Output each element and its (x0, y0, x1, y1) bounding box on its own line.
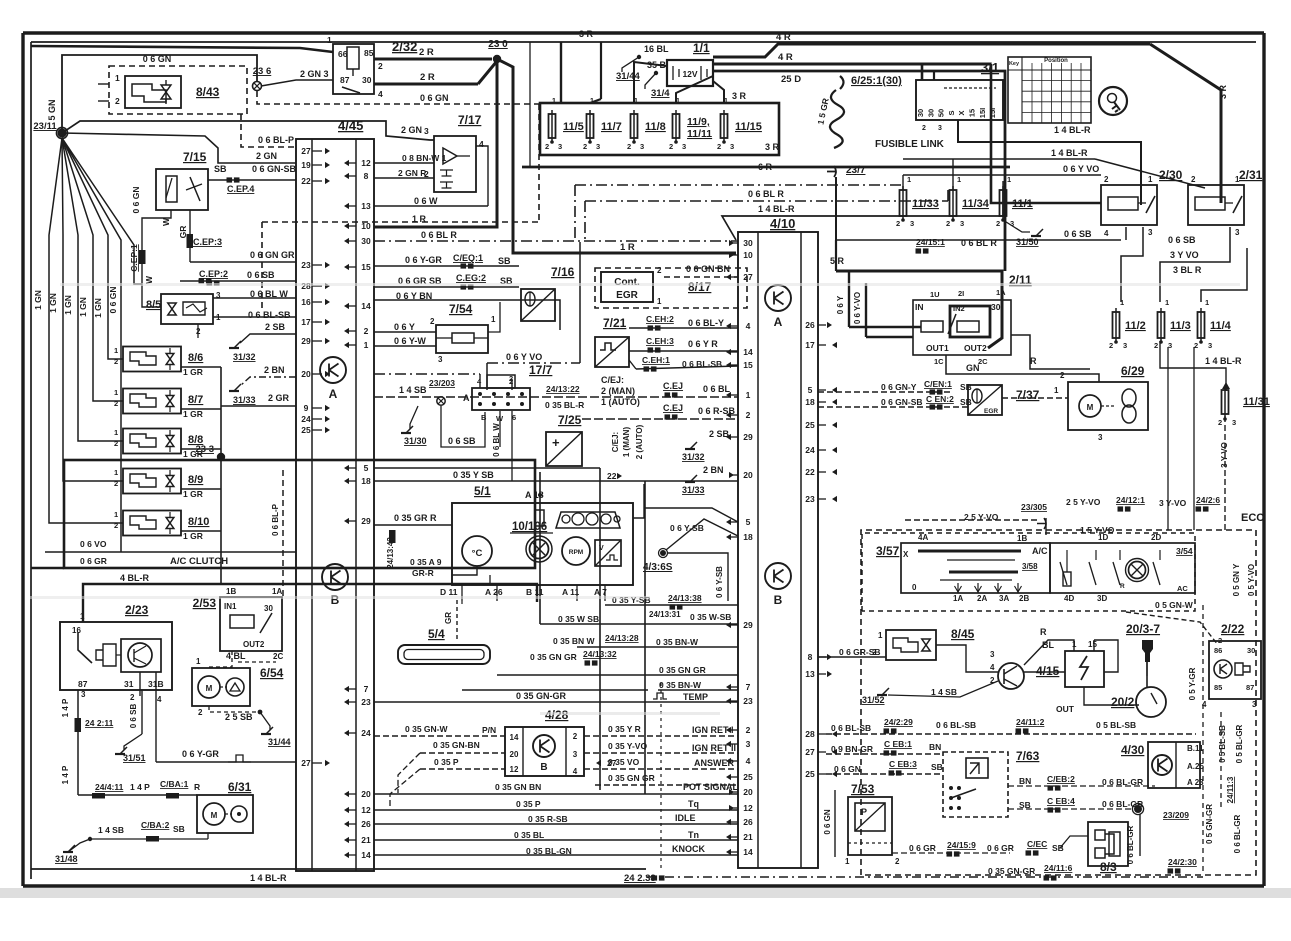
svg-text:C.EJ: C.EJ (663, 403, 683, 413)
svg-text:29: 29 (301, 336, 311, 346)
svg-text:0: 0 (912, 583, 917, 592)
svg-text:23/203: 23/203 (429, 378, 455, 388)
svg-text:0 6 Y R: 0 6 Y R (688, 339, 718, 349)
svg-text:0 5 BL-SB: 0 5 BL-SB (1096, 720, 1136, 730)
svg-text:0 35 R-SB: 0 35 R-SB (528, 814, 568, 824)
svg-text:3/58: 3/58 (1022, 562, 1038, 571)
svg-text:15: 15 (1088, 640, 1097, 649)
svg-text:°C: °C (472, 548, 483, 559)
svg-text:18: 18 (361, 476, 371, 486)
svg-text:3 R: 3 R (732, 91, 747, 101)
svg-text:2: 2 (746, 725, 751, 735)
svg-text:1: 1 (657, 297, 662, 306)
svg-text:3: 3 (1208, 341, 1212, 350)
svg-text:2: 2 (922, 125, 926, 132)
svg-text:24 2:11: 24 2:11 (85, 718, 114, 728)
svg-text:14: 14 (510, 733, 519, 742)
svg-text:1: 1 (196, 657, 201, 666)
svg-text:16 BL: 16 BL (644, 44, 669, 54)
svg-text:5 R: 5 R (830, 256, 845, 266)
svg-text:2: 2 (114, 357, 118, 366)
svg-text:2: 2 (114, 521, 118, 530)
svg-text:1: 1 (907, 175, 911, 184)
svg-text:31/51: 31/51 (123, 753, 146, 763)
svg-text:2 BN: 2 BN (264, 365, 285, 375)
svg-text:31: 31 (124, 679, 134, 689)
svg-text:24/13:28: 24/13:28 (605, 633, 639, 643)
svg-text:1 (MAN): 1 (MAN) (622, 427, 631, 458)
svg-text:2: 2 (1109, 341, 1113, 350)
svg-text:31/48: 31/48 (55, 854, 78, 864)
svg-text:27: 27 (301, 146, 311, 156)
svg-text:13: 13 (361, 201, 371, 211)
svg-text:17/7: 17/7 (529, 363, 553, 377)
svg-text:14: 14 (743, 347, 753, 357)
svg-text:3: 3 (1123, 341, 1127, 350)
svg-text:0 6 Y: 0 6 Y (394, 322, 415, 332)
svg-text:3: 3 (910, 219, 914, 228)
svg-text:0 6 Y: 0 6 Y (836, 295, 845, 314)
svg-text:1A: 1A (996, 288, 1006, 297)
svg-text:0 6 BL R: 0 6 BL R (748, 189, 784, 199)
svg-text:3/1: 3/1 (981, 60, 999, 75)
svg-text:2 R: 2 R (420, 72, 435, 83)
svg-text:C.EH:2: C.EH:2 (646, 314, 674, 324)
svg-text:2C: 2C (978, 357, 988, 366)
svg-text:4: 4 (479, 139, 484, 149)
svg-text:30: 30 (1247, 646, 1255, 655)
svg-text:14: 14 (361, 850, 371, 860)
svg-text:4A: 4A (918, 533, 928, 542)
svg-text:23/7: 23/7 (846, 165, 866, 176)
svg-text:1 5 Y-VO: 1 5 Y-VO (1080, 525, 1115, 535)
svg-text:3: 3 (730, 142, 734, 151)
svg-text:25: 25 (805, 420, 815, 430)
svg-text:1: 1 (114, 468, 118, 477)
svg-text:1 4 SB: 1 4 SB (98, 825, 124, 835)
svg-text:18: 18 (805, 397, 815, 407)
svg-text:7: 7 (364, 684, 369, 694)
svg-text:SB: SB (173, 824, 185, 834)
svg-text:24/12:1: 24/12:1 (1116, 495, 1145, 505)
svg-text:C.EP:1: C.EP:1 (129, 244, 139, 272)
svg-text:0 35 BL-R: 0 35 BL-R (545, 400, 584, 410)
svg-text:S: S (947, 110, 956, 115)
svg-text:31/50: 31/50 (1016, 237, 1039, 247)
svg-text:8/6: 8/6 (188, 352, 203, 364)
svg-text:0 6 GN: 0 6 GN (108, 287, 118, 314)
svg-text:4: 4 (1104, 229, 1109, 238)
svg-text:0 5 GN-W: 0 5 GN-W (1155, 600, 1194, 610)
svg-text:12V: 12V (682, 69, 697, 79)
svg-text:B: B (774, 593, 783, 607)
svg-text:6/31: 6/31 (228, 780, 252, 794)
svg-text:29: 29 (743, 432, 753, 442)
svg-text:1 R: 1 R (412, 214, 427, 224)
svg-text:0 6 Y-W: 0 6 Y-W (394, 336, 426, 346)
svg-text:3: 3 (1232, 418, 1236, 427)
svg-text:17: 17 (301, 317, 311, 327)
svg-text:0 35 BN-W: 0 35 BN-W (659, 680, 702, 690)
svg-text:8/7: 8/7 (188, 394, 203, 406)
svg-text:1C: 1C (934, 357, 944, 366)
svg-text:27: 27 (301, 758, 311, 768)
svg-text:23: 23 (743, 696, 753, 706)
svg-text:6/25:1(30): 6/25:1(30) (851, 75, 902, 87)
svg-text:24/13:22: 24/13:22 (546, 384, 580, 394)
svg-text:24/11:6: 24/11:6 (1044, 863, 1073, 873)
svg-text:1 4 BL-R: 1 4 BL-R (250, 873, 287, 883)
svg-text:15I: 15I (988, 108, 997, 118)
svg-text:1 4 BL-R: 1 4 BL-R (1205, 356, 1242, 366)
svg-text:8/17: 8/17 (688, 280, 712, 294)
svg-text:C/EQ:1: C/EQ:1 (453, 253, 483, 263)
svg-text:C.EP.4: C.EP.4 (227, 184, 254, 194)
svg-text:0 6 GN-SB: 0 6 GN-SB (252, 164, 297, 174)
svg-text:85: 85 (364, 48, 374, 58)
svg-text:3: 3 (938, 125, 942, 132)
svg-text:4/10: 4/10 (770, 216, 795, 231)
svg-text:2: 2 (1154, 341, 1158, 350)
svg-text:20: 20 (361, 789, 371, 799)
svg-text:0 5 BL-SB: 0 5 BL-SB (1218, 725, 1227, 763)
svg-text:11/7: 11/7 (601, 121, 622, 133)
svg-text:X: X (903, 550, 909, 559)
svg-text:30: 30 (264, 604, 273, 613)
svg-text:4: 4 (157, 695, 162, 704)
svg-text:31/32: 31/32 (233, 352, 256, 362)
svg-text:3: 3 (640, 142, 644, 151)
svg-text:2: 2 (669, 142, 673, 151)
svg-text:8/9: 8/9 (188, 474, 203, 486)
svg-text:13: 13 (805, 669, 815, 679)
svg-text:W: W (144, 275, 154, 284)
svg-text:C/BA:1: C/BA:1 (160, 779, 189, 789)
svg-text:16: 16 (72, 626, 81, 635)
svg-text:C EB:4: C EB:4 (1047, 796, 1075, 806)
svg-text:2 GN: 2 GN (401, 125, 422, 135)
svg-text:27: 27 (607, 758, 617, 768)
svg-text:TEMP: TEMP (683, 692, 708, 702)
svg-text:2 SB: 2 SB (709, 429, 730, 439)
svg-text:M: M (1087, 403, 1094, 412)
svg-text:2 (MAN): 2 (MAN) (601, 386, 635, 396)
svg-text:2 R: 2 R (419, 47, 434, 58)
svg-text:11/1: 11/1 (1012, 198, 1033, 210)
svg-text:4/45: 4/45 (338, 118, 363, 133)
svg-text:30: 30 (991, 302, 1001, 312)
svg-text:3 Y-VO: 3 Y-VO (1159, 498, 1187, 508)
svg-text:21: 21 (361, 835, 371, 845)
svg-text:2/31: 2/31 (1239, 168, 1263, 182)
svg-text:2D: 2D (1151, 533, 1161, 542)
svg-text:2/32: 2/32 (392, 39, 417, 54)
svg-text:1 4 BL-R: 1 4 BL-R (1051, 148, 1088, 158)
svg-text:2: 2 (657, 266, 662, 275)
svg-text:A 26: A 26 (485, 587, 503, 597)
svg-text:2: 2 (996, 219, 1000, 228)
svg-text:25: 25 (743, 772, 753, 782)
svg-text:1 (AUTO): 1 (AUTO) (601, 397, 640, 407)
svg-text:1 4 SB: 1 4 SB (931, 687, 957, 697)
svg-text:2: 2 (1218, 418, 1222, 427)
svg-text:OUT2: OUT2 (964, 343, 987, 353)
svg-text:4: 4 (746, 756, 751, 766)
svg-text:C.EH:3: C.EH:3 (646, 336, 674, 346)
svg-text:0 6 BL-SB: 0 6 BL-SB (248, 310, 291, 320)
svg-text:R: R (194, 782, 200, 792)
svg-text:87: 87 (1246, 683, 1254, 692)
svg-text:11/11: 11/11 (687, 128, 712, 140)
svg-text:3 R: 3 R (765, 142, 780, 152)
svg-text:1: 1 (115, 73, 120, 83)
svg-text:1/1: 1/1 (693, 41, 710, 55)
svg-text:0 6 SB: 0 6 SB (129, 704, 138, 729)
svg-text:0 35 W-SB: 0 35 W-SB (690, 612, 731, 622)
svg-text:0 6 Y-GR: 0 6 Y-GR (405, 255, 442, 265)
svg-text:1 4 P: 1 4 P (130, 782, 150, 792)
svg-text:30: 30 (361, 236, 371, 246)
svg-text:1 GN: 1 GN (93, 298, 103, 318)
svg-text:87: 87 (78, 679, 88, 689)
svg-text:3: 3 (573, 750, 578, 759)
svg-text:11/2: 11/2 (1125, 320, 1146, 332)
svg-text:BN: BN (929, 742, 941, 752)
svg-text:0 6 BL-Y: 0 6 BL-Y (688, 318, 724, 328)
svg-text:ANSWER: ANSWER (694, 758, 734, 768)
svg-text:0 6 W: 0 6 W (414, 196, 438, 206)
svg-text:RPM: RPM (569, 549, 583, 556)
svg-text:5: 5 (364, 463, 369, 473)
svg-text:0 6 VO: 0 6 VO (80, 539, 107, 549)
svg-text:0 35 Y-VO: 0 35 Y-VO (608, 741, 647, 751)
svg-text:0 35 BN W: 0 35 BN W (553, 636, 596, 646)
svg-text:86: 86 (1214, 646, 1222, 655)
svg-text:20: 20 (301, 369, 311, 379)
svg-text:1: 1 (364, 340, 369, 350)
svg-text:1 GR: 1 GR (183, 409, 203, 419)
svg-text:7: 7 (746, 682, 751, 692)
svg-text:5/4: 5/4 (428, 627, 445, 641)
svg-text:0 6 Y VO: 0 6 Y VO (506, 352, 542, 362)
svg-text:2 GN 3: 2 GN 3 (300, 69, 329, 79)
svg-text:IDLE: IDLE (675, 813, 696, 823)
svg-text:24/2:6: 24/2:6 (1196, 495, 1220, 505)
svg-text:0 6 BL-GR: 0 6 BL-GR (1233, 814, 1242, 853)
svg-text:IN1: IN1 (224, 602, 237, 611)
svg-text:A: A (774, 315, 783, 329)
svg-text:4D: 4D (1064, 594, 1074, 603)
svg-text:0 6 GN-Y: 0 6 GN-Y (881, 382, 917, 392)
svg-text:1: 1 (552, 96, 556, 105)
svg-text:B.11: B.11 (1187, 744, 1204, 753)
svg-text:Cont.: Cont. (614, 277, 640, 288)
svg-text:31/4: 31/4 (651, 88, 670, 99)
svg-text:2 GN: 2 GN (256, 151, 277, 161)
svg-text:2: 2 (717, 142, 721, 151)
svg-text:24: 24 (301, 414, 311, 424)
svg-text:5 GN: 5 GN (47, 99, 57, 120)
svg-text:8/5: 8/5 (146, 299, 161, 311)
svg-text:1: 1 (1235, 175, 1240, 184)
svg-text:8: 8 (364, 171, 369, 181)
svg-text:0 35 Y R: 0 35 Y R (608, 724, 641, 734)
svg-text:+: + (552, 435, 560, 450)
svg-text:50: 50 (937, 109, 946, 117)
svg-text:11/5: 11/5 (563, 121, 584, 133)
svg-text:7/25: 7/25 (558, 413, 582, 427)
svg-text:3D: 3D (1097, 594, 1107, 603)
svg-text:0 6 SB: 0 6 SB (448, 436, 476, 446)
svg-text:28: 28 (805, 729, 815, 739)
svg-text:2: 2 (114, 399, 118, 408)
svg-text:0 6 GN: 0 6 GN (131, 187, 141, 214)
svg-text:3 R: 3 R (579, 29, 594, 39)
svg-text:0 6 GN BN: 0 6 GN BN (686, 264, 730, 274)
svg-text:GR-R: GR-R (412, 568, 434, 578)
svg-text:2 GN R: 2 GN R (398, 168, 426, 178)
svg-text:3: 3 (558, 142, 562, 151)
svg-text:4: 4 (573, 767, 578, 776)
svg-text:26: 26 (361, 819, 371, 829)
svg-text:3/54: 3/54 (1176, 546, 1193, 556)
svg-text:31/52: 31/52 (862, 695, 885, 705)
svg-text:15: 15 (361, 262, 371, 272)
svg-text:24/2:30: 24/2:30 (1168, 857, 1197, 867)
svg-text:C EN:2: C EN:2 (926, 394, 954, 404)
svg-text:0 35 BL: 0 35 BL (514, 830, 544, 840)
svg-text:0 35 BN-W: 0 35 BN-W (656, 637, 699, 647)
svg-text:EGR: EGR (616, 290, 638, 301)
svg-text:1 4 P: 1 4 P (61, 698, 70, 717)
svg-text:31/32: 31/32 (682, 452, 705, 462)
svg-text:Tn: Tn (688, 830, 699, 840)
svg-text:24/11:3: 24/11:3 (1226, 776, 1235, 803)
svg-text:EGR: EGR (984, 408, 998, 415)
svg-text:11/34: 11/34 (962, 198, 990, 210)
svg-text:0 6 GN GR: 0 6 GN GR (250, 250, 295, 260)
svg-text:0 5 Y-GR: 0 5 Y-GR (1188, 667, 1197, 700)
svg-text:GN: GN (966, 363, 980, 373)
svg-text:15: 15 (968, 109, 977, 117)
svg-text:22: 22 (301, 176, 311, 186)
svg-text:2/30: 2/30 (1159, 168, 1183, 182)
svg-text:0 6 GN: 0 6 GN (823, 809, 832, 835)
svg-text:11/9,: 11/9, (687, 116, 710, 128)
svg-text:4/30: 4/30 (1121, 743, 1145, 757)
svg-text:4/3:6S: 4/3:6S (643, 562, 673, 573)
svg-text:SB: SB (960, 397, 972, 407)
svg-text:24: 24 (361, 728, 371, 738)
svg-text:POT SIGNAL: POT SIGNAL (683, 782, 739, 792)
svg-text:6/29: 6/29 (1121, 364, 1145, 378)
svg-text:24 2.38: 24 2.38 (624, 873, 656, 884)
svg-text:2: 2 (1104, 175, 1109, 184)
svg-text:23 0: 23 0 (488, 39, 508, 50)
svg-text:2: 2 (430, 317, 435, 326)
svg-text:8/10: 8/10 (188, 516, 209, 528)
svg-text:1: 1 (327, 35, 332, 45)
svg-text:A.25: A.25 (1187, 762, 1204, 771)
svg-text:Key: Key (1009, 61, 1020, 67)
svg-text:24: 24 (805, 445, 815, 455)
svg-text:2: 2 (198, 708, 203, 717)
svg-text:2: 2 (509, 374, 513, 383)
svg-text:0 35 GN-GR: 0 35 GN-GR (988, 866, 1035, 876)
svg-text:26: 26 (805, 320, 815, 330)
svg-text:C/EB:2: C/EB:2 (1047, 774, 1075, 784)
svg-text:1 GN: 1 GN (33, 290, 43, 310)
svg-text:C.EJ: C.EJ (663, 381, 683, 391)
svg-text:1 GN: 1 GN (48, 293, 58, 313)
svg-text:10/106: 10/106 (512, 521, 547, 533)
svg-text:C EB:3: C EB:3 (889, 759, 917, 769)
svg-text:1: 1 (845, 857, 850, 866)
svg-text:7/15: 7/15 (183, 150, 207, 164)
svg-text:OUT2: OUT2 (243, 640, 265, 649)
svg-text:0 35 GR R: 0 35 GR R (394, 513, 437, 523)
svg-text:23 3: 23 3 (196, 444, 215, 455)
svg-text:3: 3 (596, 142, 600, 151)
svg-text:2 SB: 2 SB (265, 322, 286, 332)
svg-text:23: 23 (361, 697, 371, 707)
svg-text:11/33: 11/33 (912, 198, 939, 210)
svg-text:0 6 BL: 0 6 BL (703, 384, 731, 394)
svg-text:1 GR: 1 GR (183, 367, 203, 377)
svg-text:9: 9 (304, 403, 309, 413)
svg-text:A: A (463, 393, 470, 403)
svg-text:C EB:1: C EB:1 (884, 739, 912, 749)
svg-text:3 R: 3 R (1218, 85, 1228, 100)
svg-text:4 R: 4 R (776, 32, 791, 43)
svg-text:30: 30 (926, 109, 935, 117)
svg-text:BN: BN (1019, 776, 1031, 786)
svg-text:3: 3 (960, 219, 964, 228)
svg-text:B: B (540, 762, 547, 773)
svg-text:26: 26 (743, 817, 753, 827)
svg-text:0 6 GR: 0 6 GR (987, 843, 1014, 853)
svg-text:AC: AC (1177, 584, 1188, 593)
svg-text:1 GN: 1 GN (78, 297, 88, 317)
svg-text:4 R: 4 R (778, 52, 793, 63)
svg-text:3: 3 (1235, 228, 1240, 237)
svg-text:1 4 BL-R: 1 4 BL-R (1054, 125, 1091, 135)
svg-text:3/57: 3/57 (876, 544, 900, 558)
svg-text:20: 20 (743, 787, 753, 797)
svg-text:0 35 GN BN: 0 35 GN BN (495, 782, 541, 792)
svg-text:1: 1 (1120, 298, 1124, 307)
svg-text:4: 4 (746, 321, 751, 331)
svg-text:23/11: 23/11 (33, 121, 57, 132)
svg-text:2A: 2A (977, 594, 987, 603)
svg-text:2: 2 (545, 142, 549, 151)
svg-text:1: 1 (957, 175, 961, 184)
svg-text:1: 1 (114, 428, 118, 437)
svg-text:31/30: 31/30 (404, 436, 427, 446)
svg-text:22: 22 (805, 467, 815, 477)
svg-text:2B: 2B (1019, 594, 1029, 603)
svg-text:1 4 P: 1 4 P (61, 765, 70, 784)
svg-text:27: 27 (743, 272, 753, 282)
svg-text:4 BL-R: 4 BL-R (120, 573, 150, 583)
svg-text:2: 2 (378, 61, 383, 71)
svg-text:4/15: 4/15 (1036, 664, 1060, 678)
svg-text:B 11: B 11 (526, 587, 544, 597)
svg-text:18: 18 (743, 532, 753, 542)
svg-text:0 35 GN-BN: 0 35 GN-BN (433, 740, 480, 750)
svg-text:12: 12 (743, 803, 753, 813)
svg-text:Position: Position (1044, 58, 1068, 64)
